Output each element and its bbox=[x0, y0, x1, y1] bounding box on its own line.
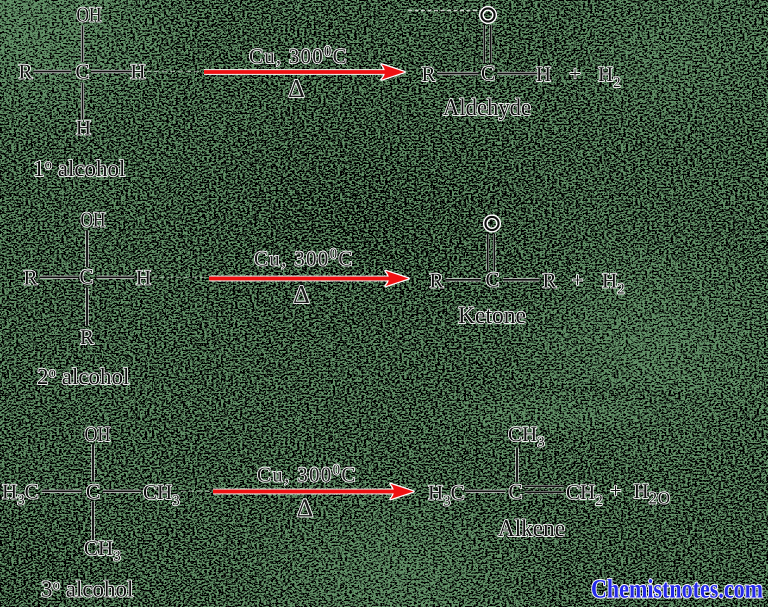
svg-text:+: + bbox=[572, 268, 584, 292]
atom O ring (aldehyde) halo bbox=[481, 8, 494, 21]
residue streak right of H row1 bbox=[146, 71, 202, 73]
svg-text:H: H bbox=[76, 116, 91, 140]
svg-text:Aldehyde: Aldehyde bbox=[443, 95, 531, 121]
svg-text:R: R bbox=[429, 268, 443, 292]
svg-text:R: R bbox=[18, 60, 32, 84]
svg-text:C: C bbox=[481, 61, 495, 85]
svg-text:Chemistnotes.com: Chemistnotes.com bbox=[591, 574, 763, 604]
svg-text:Cu, 3000C: Cu, 3000C bbox=[257, 463, 357, 487]
svg-text:R: R bbox=[80, 325, 94, 349]
svg-text:Δ: Δ bbox=[297, 494, 314, 523]
double bond C=C line 2 (alkene) bbox=[525, 491, 564, 493]
svg-text:Alkene: Alkene bbox=[498, 516, 565, 542]
bond C-R (ketone) bbox=[503, 278, 540, 281]
svg-text:H: H bbox=[536, 62, 551, 86]
bond R-C (2-deg alcohol) bbox=[40, 276, 79, 279]
double bond C=O line 1 (aldehyde) bbox=[483, 25, 485, 63]
bond R-C (ketone) bbox=[446, 278, 482, 281]
residue streak right of CH3 row3 bbox=[181, 490, 211, 492]
svg-text:OH: OH bbox=[77, 3, 102, 27]
atom O ring (aldehyde) bbox=[481, 8, 494, 21]
svg-text:Cu, 3000C: Cu, 3000C bbox=[254, 247, 354, 271]
svg-text:OH: OH bbox=[85, 422, 111, 446]
double bond C=O line 1 (ketone) bbox=[487, 234, 489, 271]
svg-text:+: + bbox=[610, 479, 622, 503]
bond C-H (aldehyde) bbox=[498, 72, 538, 75]
bond H3C-C (alkene) bbox=[466, 490, 506, 493]
svg-text:R: R bbox=[421, 62, 435, 86]
svg-text:H: H bbox=[136, 265, 151, 289]
bond O-C vertical (1-deg alcohol) bbox=[81, 26, 84, 63]
svg-text:C: C bbox=[75, 60, 89, 84]
svg-text:C: C bbox=[86, 480, 100, 504]
bond C-CH3 vertical (3-deg alcohol) bbox=[91, 502, 94, 541]
bond O-C vertical (3-deg alcohol) bbox=[91, 445, 94, 482]
bond R-C (aldehyde) bbox=[437, 72, 479, 75]
svg-text:C: C bbox=[79, 265, 93, 289]
svg-text:Cu, 3000C: Cu, 3000C bbox=[249, 44, 348, 68]
bond C-CH3 (3-deg alcohol) bbox=[103, 490, 141, 493]
svg-text:C: C bbox=[508, 480, 522, 504]
bond O-C vertical (2-deg alcohol) bbox=[85, 231, 88, 268]
svg-text:OH: OH bbox=[81, 208, 106, 232]
svg-text:Δ: Δ bbox=[288, 74, 305, 103]
atom O ring (ketone) halo bbox=[485, 217, 498, 230]
bond C-H right (1-deg alcohol) bbox=[91, 70, 132, 73]
double bond C=O line 2 (ketone) bbox=[493, 234, 495, 271]
svg-text:R: R bbox=[23, 265, 37, 289]
svg-text:+: + bbox=[569, 62, 581, 86]
bond CH3-C vertical (alkene) bbox=[515, 448, 518, 482]
bond C-R vertical (2-deg alcohol) bbox=[85, 288, 88, 326]
bond C-H (2-deg alcohol) bbox=[97, 276, 135, 279]
atom O ring (ketone) bbox=[485, 217, 498, 230]
bond H3C-C (3-deg alcohol) bbox=[42, 490, 82, 493]
bond R-C (1-deg alcohol) bbox=[34, 70, 72, 73]
svg-text:Ketone: Ketone bbox=[458, 303, 526, 329]
residue streak row1 product bbox=[408, 10, 482, 12]
double bond C=O line 2 (aldehyde) bbox=[490, 25, 492, 63]
svg-text:Δ: Δ bbox=[293, 280, 310, 309]
double bond C=C line 1 (alkene) bbox=[525, 485, 564, 487]
residue streak right of H row2 bbox=[152, 276, 207, 278]
bond C-H vertical (1-deg alcohol) bbox=[81, 83, 84, 120]
svg-text:R: R bbox=[542, 268, 556, 292]
svg-text:H: H bbox=[130, 60, 145, 84]
svg-text:C: C bbox=[485, 268, 499, 292]
